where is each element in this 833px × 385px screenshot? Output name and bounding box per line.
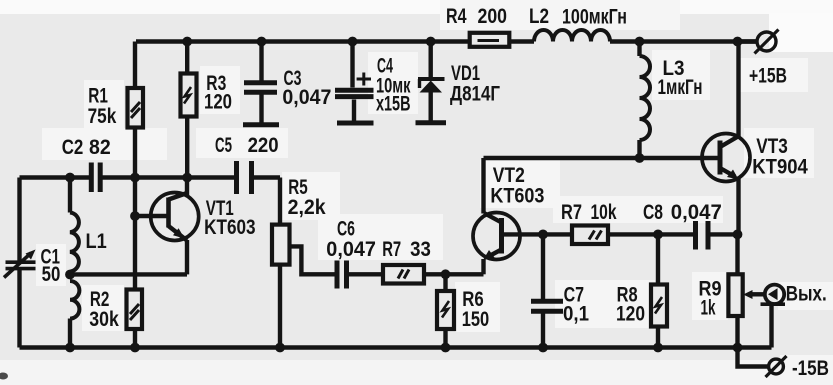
svg-text:150: 150: [462, 308, 490, 331]
svg-text:30k: 30k: [89, 308, 119, 331]
svg-text:-15В: -15В: [792, 357, 829, 380]
svg-text:KT603: KT603: [204, 216, 256, 239]
svg-text:Вых.: Вых.: [786, 283, 827, 306]
svg-text:L1: L1: [86, 230, 108, 253]
svg-text:Д814Г: Д814Г: [450, 83, 500, 106]
svg-text:0,047: 0,047: [326, 238, 376, 261]
svg-text:C5: C5: [215, 134, 232, 157]
svg-text:R4: R4: [446, 5, 467, 28]
svg-text:1мкГн: 1мкГн: [658, 76, 703, 99]
svg-text:82: 82: [89, 136, 111, 159]
svg-text:1k: 1k: [701, 297, 716, 320]
svg-text:0,047: 0,047: [282, 86, 331, 109]
svg-text:KT603: KT603: [490, 185, 544, 208]
svg-text:50: 50: [42, 263, 61, 286]
svg-text:200: 200: [478, 5, 508, 28]
svg-text:2,2k: 2,2k: [288, 196, 326, 219]
svg-text:0,1: 0,1: [563, 303, 589, 326]
svg-text:L2: L2: [529, 5, 549, 28]
svg-text:x15В: x15В: [376, 93, 411, 116]
svg-text:120: 120: [616, 303, 645, 326]
svg-text:R7: R7: [561, 201, 582, 224]
svg-text:100мкГн: 100мкГн: [562, 6, 627, 29]
svg-text:KT904: KT904: [752, 156, 808, 179]
svg-text:220: 220: [248, 134, 279, 157]
svg-text:10k: 10k: [591, 201, 617, 224]
svg-text:33: 33: [410, 238, 431, 261]
svg-text:C8: C8: [643, 201, 663, 224]
svg-text:+15В: +15В: [749, 65, 787, 88]
svg-text:120: 120: [204, 91, 232, 114]
svg-text:R7: R7: [382, 238, 401, 261]
svg-text:0,047: 0,047: [671, 201, 722, 224]
svg-text:C2: C2: [62, 136, 84, 159]
svg-text:75k: 75k: [88, 105, 117, 128]
